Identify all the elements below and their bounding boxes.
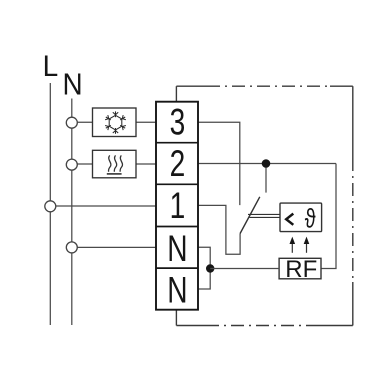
thermostat box xyxy=(280,203,322,232)
terminal circle on N rail (to heating) xyxy=(66,159,77,170)
wire N-N jumper bracket xyxy=(198,247,210,289)
wire heating box to terminal 2 xyxy=(136,163,156,165)
RF receiver box xyxy=(279,258,321,279)
wire cooling box to terminal 3 xyxy=(136,121,156,123)
heating device box xyxy=(93,150,137,178)
mechanical link double line xyxy=(248,213,280,215)
enclosure bottom edge xyxy=(176,325,206,327)
wire N rail to terminal N xyxy=(72,246,156,248)
terminal block cell divider 1 xyxy=(156,142,198,144)
terminal block cell divider 3 xyxy=(156,226,198,228)
wire terminal 1 to switch pivot xyxy=(198,205,240,254)
switch lever xyxy=(240,197,260,234)
svg-text:2: 2 xyxy=(170,142,186,184)
terminal circle on L rail (to terminal 1) xyxy=(45,201,56,212)
wire N rail xyxy=(71,99,73,326)
wire terminal 2 row to right side xyxy=(198,163,336,165)
svg-text:RF: RF xyxy=(285,256,317,283)
svg-text:L: L xyxy=(43,50,59,83)
terminal circle on N rail (to cooling) xyxy=(66,117,77,128)
heating wavy-lines icon xyxy=(107,155,123,174)
wire terminal 3 to switch fixed contact xyxy=(198,122,240,205)
junction dot B xyxy=(206,264,214,272)
svg-text:3: 3 xyxy=(170,101,186,143)
wire N rail to cooling box xyxy=(72,121,93,123)
terminal block outline xyxy=(156,102,198,310)
terminal circle on N rail (to terminal N) xyxy=(66,242,77,253)
enclosure right edge xyxy=(352,86,354,158)
RF radio arrow 2 xyxy=(304,237,310,253)
svg-text:ϑ: ϑ xyxy=(305,204,316,233)
enclosure top edge xyxy=(176,85,207,87)
enclosure left bottom stub xyxy=(175,310,177,326)
terminal block cell divider 4 xyxy=(156,267,198,269)
svg-text:N: N xyxy=(167,227,187,269)
wire L rail to terminal 1 xyxy=(50,205,156,207)
RF radio arrow 1 xyxy=(290,237,296,253)
svg-text:1: 1 xyxy=(170,184,186,226)
wire right side down to RF box xyxy=(321,164,336,269)
symbol less-than xyxy=(286,214,293,225)
wire L rail xyxy=(49,83,51,325)
svg-text:N: N xyxy=(167,269,187,311)
cooling snowflake icon xyxy=(104,111,126,133)
wire N rail to heating box xyxy=(72,163,93,165)
wire junction B to RF box xyxy=(210,268,279,270)
cooling device box xyxy=(93,108,137,137)
terminal block cell divider 2 xyxy=(156,183,198,185)
junction dot A xyxy=(262,159,271,168)
svg-text:N: N xyxy=(63,67,83,102)
wire junction to switch contact B xyxy=(265,164,267,193)
enclosure dash-dot boundary: left top stub xyxy=(175,86,177,102)
